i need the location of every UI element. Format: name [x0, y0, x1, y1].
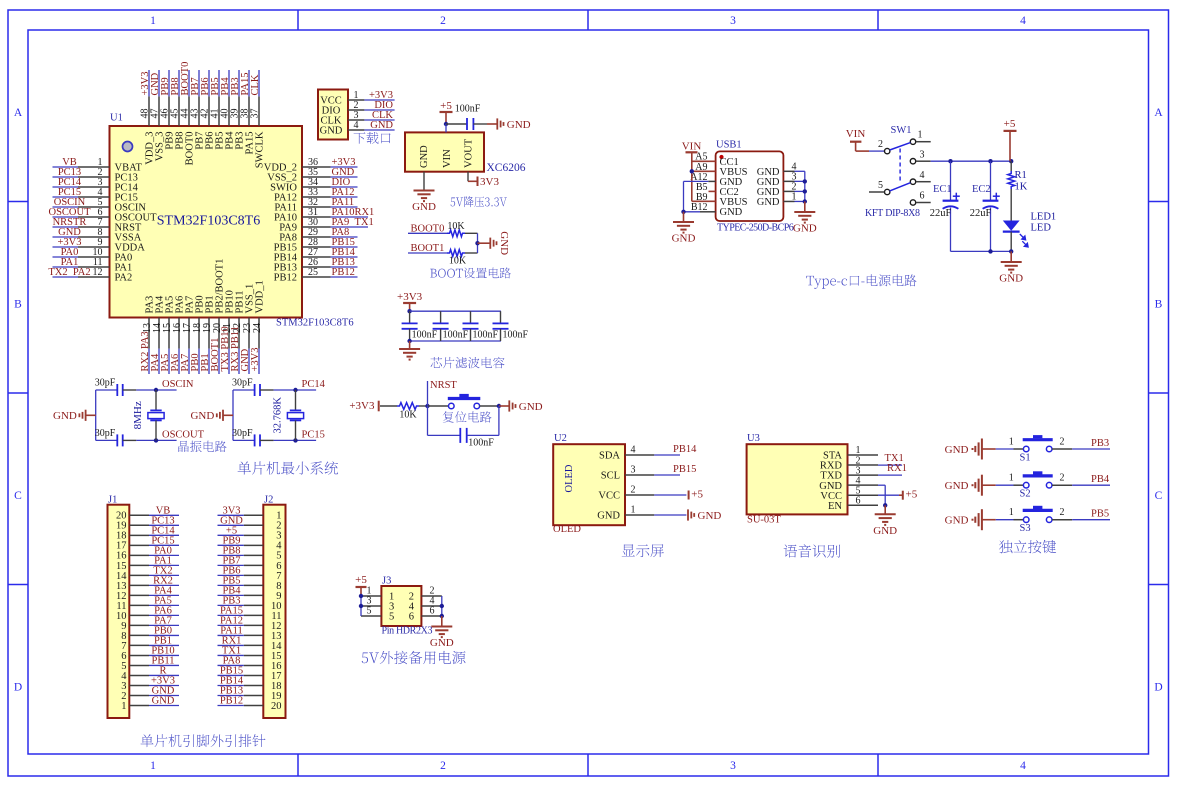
svg-text:6: 6	[430, 606, 435, 617]
svg-text:100nF: 100nF	[455, 104, 481, 115]
svg-text:PB12: PB12	[332, 267, 355, 278]
header J3 body	[381, 586, 421, 626]
title: 5V external backup power	[362, 651, 466, 664]
svg-text:SCL: SCL	[601, 471, 620, 482]
XC6206 pin names	[419, 138, 475, 168]
electrolytic capacitor EC1 22uF	[930, 161, 960, 251]
svg-text:PB4: PB4	[1091, 474, 1110, 485]
svg-text:S1: S1	[1020, 453, 1031, 464]
U1 pin 46 PB9	[160, 70, 176, 150]
svg-text:GND: GND	[757, 197, 780, 208]
junction top-left filter	[407, 309, 411, 313]
USB1 right pin 1 GND	[757, 191, 805, 208]
svg-text:J2: J2	[264, 495, 273, 506]
svg-text:GND: GND	[672, 233, 696, 245]
wire VIN down	[445, 124, 447, 132]
svg-text:GND: GND	[419, 145, 430, 168]
svg-text:OSCIN: OSCIN	[162, 379, 194, 390]
svg-text:LED1: LED1	[1031, 212, 1057, 223]
U1 pin 21 PB10	[220, 290, 236, 374]
wire bottom rail type-c	[951, 250, 1012, 252]
U1 pin 33 PA12	[274, 187, 357, 204]
U1 pin 35 VSS_2	[267, 167, 357, 184]
pin-1 indicator circle	[123, 142, 133, 152]
U1 pin 10 PA0	[53, 247, 133, 263]
svg-text:24: 24	[252, 323, 263, 333]
U3 pin 5 VCC	[820, 485, 878, 501]
svg-text:8MHz: 8MHz	[132, 401, 144, 429]
J2 pin 12 PA12	[218, 615, 282, 631]
svg-text:5: 5	[878, 180, 883, 191]
pushbutton S1	[1009, 435, 1072, 463]
display U2 body	[553, 444, 625, 525]
svg-text:GND: GND	[945, 515, 969, 527]
J2 pin 3 +5	[218, 525, 282, 541]
USB1 right pin 4 GND	[757, 161, 805, 178]
earth ground type-c	[999, 251, 1023, 284]
svg-text:B: B	[14, 299, 22, 311]
svg-text:2: 2	[878, 139, 883, 150]
svg-text:C: C	[1155, 490, 1163, 502]
U1 pin 39 PB3	[230, 70, 246, 150]
capacitor C2 100nF	[402, 311, 438, 341]
svg-text:BOOT0: BOOT0	[411, 223, 445, 234]
svg-text:6: 6	[920, 191, 925, 202]
svg-text:3: 3	[730, 760, 736, 772]
junction dot	[154, 388, 158, 392]
wire A5 to VIN	[692, 160, 716, 162]
J1 pin 17 PC15	[116, 535, 179, 551]
svg-text:GND: GND	[793, 223, 817, 235]
svg-text:PB12: PB12	[274, 273, 297, 284]
svg-text:PC15: PC15	[302, 429, 325, 440]
svg-text:GND: GND	[720, 207, 743, 218]
svg-text:KFT DIP-8X8: KFT DIP-8X8	[865, 208, 920, 219]
junction dot U3 EN/GND	[883, 503, 887, 507]
wire J3 left rail	[360, 596, 362, 616]
capacitor 100nF reset	[428, 406, 499, 449]
USB1 type-c body	[716, 151, 784, 221]
earth ground USB left	[672, 212, 696, 245]
resistor 10K (BOOT0)	[447, 221, 478, 237]
GND power port reset	[499, 400, 543, 412]
USB1 right pin 2 GND	[757, 181, 805, 198]
J3 pin 6	[409, 606, 442, 623]
svg-text:EN: EN	[828, 501, 842, 512]
svg-text:5: 5	[389, 612, 394, 623]
svg-text:U1: U1	[110, 113, 123, 124]
wire RXD to TX1	[878, 453, 904, 465]
U1 pin 7 NRST	[53, 217, 142, 233]
U1 pin 25 PB12	[274, 267, 358, 284]
wire SCL to PB15	[654, 464, 696, 475]
svg-text:+5: +5	[440, 100, 452, 112]
svg-text:22uF: 22uF	[930, 208, 952, 219]
wire B9 to VIN	[692, 200, 716, 202]
earth ground USB right	[793, 202, 817, 235]
U3 pin 2 RXD	[820, 455, 878, 471]
title: voice recognition	[784, 544, 841, 557]
U1 pin 22 PB11	[230, 291, 246, 374]
svg-text:GND: GND	[430, 637, 454, 649]
svg-text:2: 2	[440, 760, 446, 772]
svg-text:1: 1	[150, 15, 156, 27]
svg-text:4: 4	[1020, 15, 1026, 27]
svg-text:GND: GND	[412, 201, 436, 213]
J1 pin 13 RX2	[116, 575, 179, 591]
svg-text:GND: GND	[999, 273, 1023, 285]
svg-text:+5: +5	[906, 489, 918, 501]
J1 pin 15 PA1	[116, 555, 179, 571]
J3 pin 2	[409, 586, 442, 603]
wire TXD to RX1	[878, 463, 907, 475]
svg-text:+5: +5	[1004, 118, 1016, 130]
J1 pin 16 PA0	[116, 545, 179, 561]
svg-text:PB5: PB5	[1091, 509, 1109, 520]
U1 pin 27 PB14	[274, 247, 358, 264]
J2 pin 7 PB6	[218, 565, 282, 581]
J2 pin 1 3V3	[218, 505, 282, 521]
svg-text:1: 1	[1009, 507, 1014, 518]
power VIN	[682, 141, 702, 202]
voice module U3 body	[747, 444, 848, 514]
svg-text:GND: GND	[873, 525, 897, 537]
U1 pin 20 PB2/BOOT1	[210, 259, 226, 374]
wire GND to S3	[996, 519, 1024, 521]
svg-text:100nF: 100nF	[503, 329, 529, 340]
U1 pin 5 OSCIN	[53, 197, 147, 213]
svg-text:LED: LED	[1031, 223, 1052, 234]
J2 pin 2 GND	[218, 515, 282, 531]
svg-text:VOUT: VOUT	[464, 138, 475, 168]
svg-text:PB12: PB12	[220, 695, 243, 706]
GND power port crystal	[190, 410, 233, 422]
junction at VIN	[444, 122, 448, 126]
U1 pin 26 PB13	[274, 257, 358, 274]
resistor 10K (BOOT1)	[447, 250, 478, 267]
svg-text:D: D	[14, 682, 22, 694]
J3 pin 4	[409, 596, 442, 613]
svg-text:4: 4	[1020, 760, 1026, 772]
GND power port at capacitor	[487, 118, 531, 130]
resistor R1 1K	[1008, 161, 1028, 220]
svg-text:OLED: OLED	[564, 464, 575, 492]
svg-text:22uF: 22uF	[970, 208, 992, 219]
download header pin 1 VCC	[320, 90, 394, 107]
svg-text:VIN: VIN	[442, 149, 453, 168]
svg-text:6: 6	[409, 612, 414, 623]
svg-text:2: 2	[1060, 507, 1065, 518]
svg-text:OLED: OLED	[553, 524, 581, 535]
svg-text:2: 2	[1060, 436, 1065, 447]
wire A9 to VIN	[692, 170, 716, 172]
svg-text:PB14: PB14	[673, 444, 697, 455]
svg-text:SW1: SW1	[891, 125, 912, 136]
J2 pin 10 PB3	[218, 595, 282, 611]
U1 pin 43 PB7	[190, 70, 206, 150]
U1 pin 34 SWIO	[270, 177, 357, 194]
svg-text:1: 1	[792, 191, 797, 202]
capacitor C3 100nF	[433, 311, 469, 341]
net label PC15	[296, 429, 325, 440]
MCU U1 STM32F103C8T6 body	[110, 126, 303, 318]
wire A12 GND	[684, 181, 716, 211]
title: reset circuit	[443, 411, 492, 422]
capacitor 30pF	[232, 428, 295, 447]
net label OSCIN	[156, 379, 194, 390]
svg-text:GND: GND	[320, 125, 343, 136]
wire S2 to PB4	[1072, 474, 1110, 485]
wire GND pin down	[878, 485, 885, 505]
wire joining BOOT resistors	[477, 233, 479, 253]
wire to SW1 pin2	[869, 150, 884, 152]
svg-text:Pin HDR2X3: Pin HDR2X3	[382, 626, 433, 637]
U1 pin 40 PB4	[220, 70, 236, 150]
U3 pin 3 TXD	[820, 465, 878, 481]
svg-text:1K: 1K	[1015, 182, 1028, 193]
title: Type-c power circuit	[806, 274, 916, 288]
svg-text:6: 6	[856, 495, 861, 506]
wire SDA to PB14	[654, 444, 697, 455]
U1 pin 15 PA5	[160, 296, 176, 374]
svg-text:S3: S3	[1020, 523, 1031, 534]
USB1 left pin B12 GND	[691, 202, 743, 218]
U1 pin 31 PA10	[274, 207, 374, 224]
J2 pin 14 RX1	[218, 635, 283, 651]
wire SW1 pin3 to +5 rail	[931, 160, 1012, 162]
J1 pin 1 GND	[121, 695, 179, 711]
svg-text:12: 12	[93, 267, 103, 278]
U1 pin 45 PB8	[170, 70, 186, 150]
J1 pin 20 VB	[116, 505, 179, 521]
U1 pin 16 PA6	[170, 296, 186, 374]
svg-text:1: 1	[1009, 436, 1014, 447]
earth ground U3	[873, 505, 897, 537]
svg-text:OSCOUT: OSCOUT	[162, 429, 205, 440]
J2 pin 8 PB5	[218, 575, 282, 591]
pushbutton S2	[1009, 471, 1072, 499]
USB1 left pin B9 VBUS	[696, 192, 748, 208]
svg-text:PA2: PA2	[115, 273, 133, 284]
title: MCU minimum system	[238, 461, 339, 474]
net label BOOT0 wire	[408, 223, 447, 234]
svg-text:TYPEC-250D-BCP6: TYPEC-250D-BCP6	[717, 223, 794, 234]
J1 pin 8 PB0	[121, 625, 179, 641]
U1 pin 18 PB0	[190, 295, 206, 374]
svg-text:EC1: EC1	[933, 184, 952, 195]
net label PC14	[296, 379, 326, 390]
title: independent buttons	[999, 540, 1056, 553]
crystal Y (8MHz)	[132, 390, 164, 440]
svg-text:EC2: EC2	[972, 184, 991, 195]
regulator GND pin wire and earth	[412, 172, 436, 213]
svg-text:U3: U3	[747, 433, 760, 444]
svg-text:VIN: VIN	[846, 128, 866, 140]
U2 pin 4 SDA	[599, 445, 654, 462]
svg-text:J1: J1	[108, 495, 117, 506]
svg-text:100nF: 100nF	[468, 438, 494, 449]
J1 pin 19 PC13	[116, 515, 179, 531]
svg-text:1: 1	[121, 701, 126, 712]
svg-text:GND: GND	[945, 480, 969, 492]
J1 pin 5 PB11	[121, 655, 179, 671]
svg-text:VCC: VCC	[598, 491, 620, 502]
wire B12 GND	[684, 211, 716, 213]
J1 pin 14 TX2	[116, 565, 179, 581]
download header pin 4 GND	[320, 120, 395, 137]
J2 pin 4 PB9	[218, 535, 283, 551]
net label BOOT1 wire	[408, 243, 447, 254]
svg-text:S2: S2	[1020, 489, 1031, 500]
svg-text:2: 2	[1060, 473, 1065, 484]
junction dot	[293, 438, 297, 442]
svg-text:+3V3: +3V3	[397, 291, 423, 303]
title: download port	[354, 132, 391, 144]
svg-text:SWCLK: SWCLK	[255, 131, 266, 168]
svg-text:SDA: SDA	[599, 451, 620, 462]
J2 pin 9 PB4	[218, 585, 282, 601]
U1 pin 47 VSS_3	[150, 70, 166, 161]
junction dot B12	[681, 210, 685, 214]
J2 pin 18 PB14	[218, 675, 282, 691]
power +5 at U2 VCC	[654, 489, 703, 501]
svg-text:R1: R1	[1015, 170, 1027, 181]
title: display	[622, 544, 664, 557]
J1 pin 10 PA6	[116, 605, 179, 621]
svg-text:4: 4	[354, 120, 359, 131]
svg-text:TX2 PA2: TX2 PA2	[48, 267, 90, 278]
svg-text:100nF: 100nF	[412, 329, 438, 340]
USB1 left pin B5 CC2	[696, 182, 739, 198]
U1 pin 37 SWCLK	[250, 70, 266, 168]
J3 pin 3	[361, 596, 394, 613]
svg-text:GND: GND	[190, 410, 214, 422]
U1 pin 4 PC15	[53, 187, 138, 203]
J1 pin 11 PA5	[116, 595, 179, 611]
svg-text:GND: GND	[370, 120, 393, 131]
junction dot BOOT	[475, 241, 479, 245]
U2 pin 2 VCC	[598, 485, 654, 502]
svg-text:U2: U2	[554, 433, 567, 444]
capacitor 100nF at regulator input	[446, 104, 487, 131]
U1 pin 36 VDD_2	[264, 157, 358, 174]
svg-text:4: 4	[631, 445, 636, 456]
wire GND to S1	[996, 448, 1024, 450]
U1 pin 6 OSCOUT	[48, 207, 157, 223]
svg-text:GND: GND	[945, 444, 969, 456]
svg-text:5: 5	[367, 606, 372, 617]
U1 pin 14 PA4	[150, 295, 166, 374]
power +5 type-c	[1004, 118, 1017, 161]
svg-text:100nF: 100nF	[443, 329, 469, 340]
wire S3 to PB5	[1072, 509, 1110, 520]
electrolytic capacitor EC2 22uF	[970, 161, 1000, 251]
U2 pin 3 SCL	[601, 465, 655, 482]
svg-text:GND: GND	[507, 119, 531, 131]
svg-text:25: 25	[308, 267, 318, 278]
junction dot reset left	[425, 404, 429, 408]
junction bottom-left filter	[407, 339, 411, 343]
U1 pin 19 PB1	[200, 295, 216, 374]
U1 pin 32 PA11	[274, 197, 357, 214]
junction dots top rail	[948, 159, 1013, 163]
svg-text:+5: +5	[355, 574, 367, 586]
svg-text:30pF: 30pF	[232, 378, 253, 389]
svg-text:2: 2	[631, 485, 636, 496]
svg-text:PB15: PB15	[673, 464, 696, 475]
GND power port crystal	[53, 410, 96, 422]
power +3V3 reset	[349, 400, 378, 412]
J1 pin 18 PC14	[116, 525, 179, 541]
svg-text:+3V3: +3V3	[250, 347, 261, 371]
USB1 left pin A5 CC1	[695, 152, 739, 168]
wire GND to S2	[996, 484, 1024, 486]
J2 pin 5 PB8	[218, 545, 282, 561]
svg-text:RX1: RX1	[887, 463, 907, 474]
U1 pin 8 VSSA	[53, 227, 142, 243]
svg-text:1: 1	[150, 760, 156, 772]
J3 pin 1	[361, 586, 394, 603]
wire USB right GND rail	[804, 171, 806, 201]
svg-text:PB3: PB3	[1091, 438, 1109, 449]
J2 pin 16 PA8	[218, 655, 282, 671]
U1 pin 12 PA2	[48, 267, 132, 283]
J1 pin 7 PB1	[121, 635, 179, 651]
svg-text:A: A	[14, 107, 23, 119]
U1 pin 11 PA1	[53, 257, 133, 273]
switch SW1 pole 4-5-6	[869, 170, 931, 205]
svg-text:1: 1	[1009, 473, 1014, 484]
capacitor C4 100nF	[463, 311, 499, 341]
U1 pin 23 VSS_1	[240, 284, 256, 374]
LED1 diode	[1003, 212, 1056, 252]
power +3V3 filter rail	[397, 291, 423, 311]
U1 pin 9 VDDA	[53, 237, 146, 253]
capacitor C5 100nF	[493, 311, 529, 341]
svg-text:CLK: CLK	[250, 74, 261, 95]
U3 pin 1 STA	[823, 445, 878, 461]
USB1 pin-1 red dot	[719, 155, 723, 159]
U1 pin 30 PA9	[279, 217, 373, 234]
svg-text:GND: GND	[597, 511, 620, 522]
U1 pin 17 PA7	[180, 296, 196, 374]
header J1 body	[108, 505, 130, 718]
junction dots J3 left	[359, 594, 363, 608]
svg-text:30pF: 30pF	[95, 428, 116, 439]
svg-text:100nF: 100nF	[473, 329, 499, 340]
svg-text:USB1: USB1	[716, 140, 742, 151]
svg-text:STM32F103C8T6: STM32F103C8T6	[157, 213, 260, 228]
3V3 output net stub	[468, 172, 499, 188]
earth ground J3	[430, 616, 454, 649]
U1 pin 3 PC14	[53, 177, 139, 193]
J1 pin 4 R	[121, 665, 179, 681]
title: chip filter capacitors	[431, 357, 505, 368]
U1 pin 1 VBAT	[53, 157, 143, 173]
J1 pin 12 PA4	[116, 585, 179, 601]
J2 pin 6 PB7	[218, 555, 282, 571]
junction dots USB rail	[803, 179, 807, 204]
svg-text:VDD_1: VDD_1	[255, 280, 266, 313]
GND power port at S2	[945, 475, 996, 496]
svg-text:VIN: VIN	[682, 141, 702, 153]
junction dot reset right	[497, 404, 501, 408]
title: crystal circuit	[178, 441, 226, 453]
pushbutton S3	[1009, 506, 1072, 534]
GND power port at U2	[654, 509, 721, 521]
GND power port at S1	[945, 439, 996, 460]
J1 pin 2 GND	[121, 685, 179, 701]
